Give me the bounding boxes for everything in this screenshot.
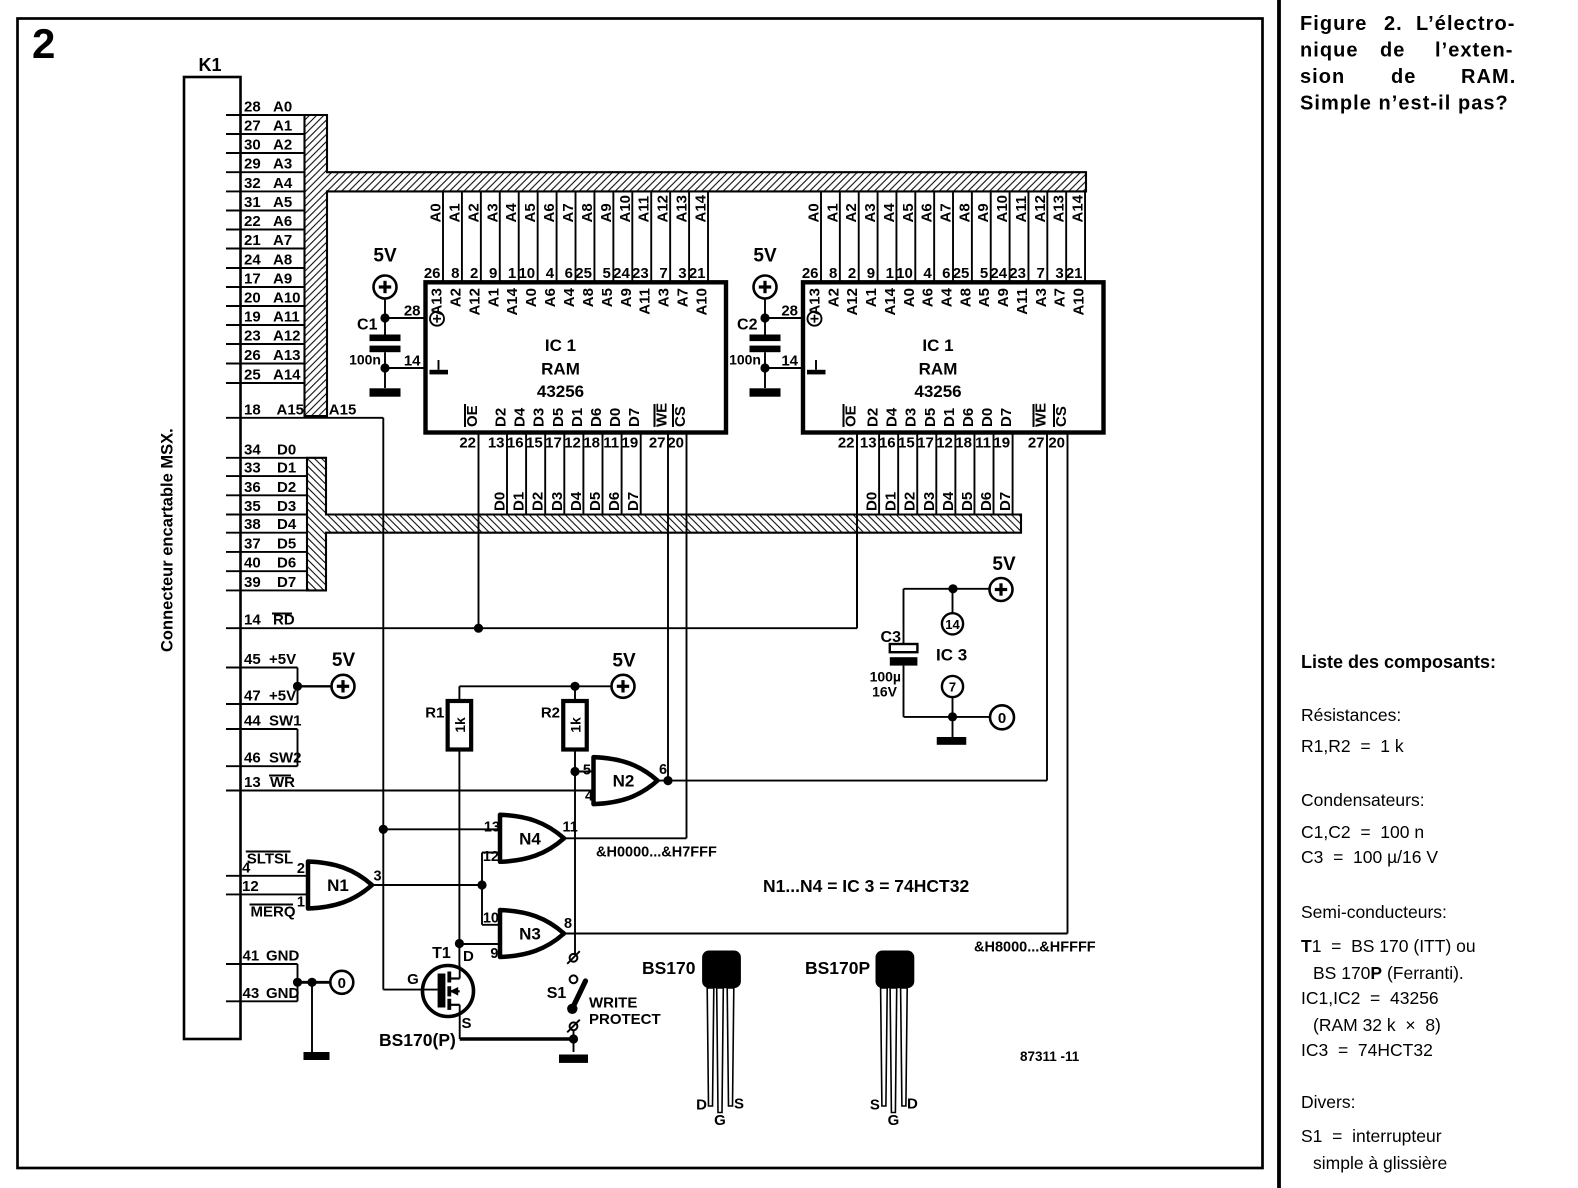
svg-text:1: 1 [886,265,894,282]
svg-text:A8: A8 [956,203,973,222]
svg-text:CS: CS [672,406,689,427]
or-gate N3 [483,910,572,962]
svg-text:D5: D5 [959,492,976,511]
svg-text:100n: 100n [729,352,761,368]
5V supply symbol at connector [332,675,355,698]
figure caption [1300,13,1516,115]
svg-text:C1,C2 = 100 n: C1,C2 = 100 n [1301,822,1424,842]
svg-text:22: 22 [244,213,261,230]
svg-text:Connecteur encartable MSX.: Connecteur encartable MSX. [159,428,177,652]
svg-text:A9: A9 [975,203,992,222]
svg-text:A3: A3 [862,203,879,222]
svg-text:A15: A15 [329,401,357,418]
svg-text:A1: A1 [824,203,841,222]
svg-text:GND: GND [266,985,300,1002]
svg-text:A10: A10 [994,195,1011,223]
svg-text:R2: R2 [541,705,560,722]
svg-text:A7: A7 [273,232,292,249]
svg-text:A14: A14 [882,287,899,315]
svg-text:20: 20 [1048,435,1065,452]
svg-text:18: 18 [955,435,972,452]
svg-text:A9: A9 [598,203,615,222]
svg-text:RAM: RAM [541,360,580,379]
svg-text:5V: 5V [373,246,397,267]
svg-text:SW2: SW2 [269,750,302,767]
package drawing BS170P [805,951,918,1130]
svg-text:19: 19 [622,435,639,452]
svg-text:A12: A12 [844,288,861,316]
svg-text:D7: D7 [998,408,1015,427]
wire 5V rail to R1/R2 [459,682,611,691]
svg-text:6: 6 [565,265,573,282]
svg-text:23: 23 [1009,265,1026,282]
resistor R2 (1k) [541,686,587,749]
svg-text:D0: D0 [979,408,996,427]
svg-text:15: 15 [526,435,543,452]
svg-text:D0: D0 [607,408,624,427]
svg-text:D6: D6 [606,492,623,511]
svg-text:A4: A4 [881,203,898,223]
svg-text:12: 12 [242,878,259,895]
svg-text:12: 12 [483,849,499,865]
wire N2 output to WE pins [658,776,1048,785]
svg-text:BS 170P (Ferranti).: BS 170P (Ferranti). [1313,963,1464,983]
svg-text:A1: A1 [485,288,502,307]
svg-text:87311 -11: 87311 -11 [1020,1049,1080,1064]
svg-text:A11: A11 [273,309,300,326]
svg-text:A0: A0 [428,203,445,222]
5V supply above C2 [754,276,777,299]
svg-text:28: 28 [404,303,421,320]
svg-text:23: 23 [632,265,649,282]
svg-text:IC 1: IC 1 [545,336,576,355]
svg-text:D4: D4 [884,407,901,427]
svg-text:A13: A13 [1051,195,1068,223]
svg-text:17: 17 [917,435,934,452]
transistor T1 (BS170) [383,945,474,1039]
svg-text:A8: A8 [273,252,292,269]
svg-text:11: 11 [563,820,578,836]
svg-text:A3: A3 [484,203,501,222]
svg-text:6: 6 [942,265,950,282]
svg-text:100n: 100n [349,352,381,368]
svg-text:31: 31 [244,194,261,211]
ground terminal 0 at connector [330,971,353,994]
svg-text:1k: 1k [452,717,468,733]
svg-text:39: 39 [244,574,261,591]
svg-text:R1,R2 = 1 k: R1,R2 = 1 k [1301,736,1404,756]
svg-text:A12: A12 [655,195,672,223]
svg-text:A1: A1 [273,118,292,135]
svg-text:WE: WE [654,403,671,427]
svg-text:5V: 5V [332,650,356,671]
connector pin 13 WR + wire to N2 [226,774,595,791]
svg-text:A12: A12 [273,328,301,345]
svg-text:L’électro-: L’électro- [1416,13,1515,35]
connector pins 44/46 SW1 SW2 [226,713,302,767]
package drawing BS170 [642,951,744,1130]
svg-text:Simple n’est-il pas?: Simple n’est-il pas? [1300,93,1509,115]
ground terminal 0 at IC3 [990,705,1014,729]
svg-text:D3: D3 [903,408,920,427]
svg-text:0: 0 [998,710,1006,727]
svg-text:Semi-conducteurs:: Semi-conducteurs: [1301,902,1447,922]
svg-text:A13: A13 [674,195,691,223]
svg-text:20: 20 [667,435,684,452]
svg-text:13: 13 [860,435,877,452]
svg-text:8: 8 [829,265,837,282]
svg-text:7: 7 [949,680,956,695]
svg-text:40: 40 [244,555,261,572]
svg-text:A8: A8 [579,203,596,222]
svg-text:A10: A10 [273,290,301,307]
svg-text:2: 2 [297,861,305,877]
svg-text:A0: A0 [806,203,823,222]
svg-text:C2: C2 [737,317,758,334]
svg-text:14: 14 [244,612,261,629]
svg-text:10: 10 [483,911,499,927]
svg-text:47: 47 [244,688,261,705]
ground symbol below IC3 pin 7 [937,737,967,745]
svg-text:3: 3 [374,869,382,885]
svg-text:D1: D1 [277,460,296,477]
svg-text:18: 18 [244,401,261,418]
svg-text:A3: A3 [1033,288,1050,307]
svg-text:OE: OE [843,405,860,427]
svg-text:A5: A5 [273,194,292,211]
svg-text:RAM: RAM [919,360,958,379]
svg-text:de: de [1391,66,1416,88]
svg-text:A6: A6 [920,288,937,307]
svg-text:OE: OE [464,405,481,427]
svg-text:37: 37 [244,535,261,552]
connector pins 4 SLTSL / 12 MERQ [226,851,310,921]
capacitor C3 (100u/16V electrolytic) [870,589,918,717]
svg-text:RAM.: RAM. [1461,66,1516,88]
svg-text:17: 17 [244,271,261,288]
svg-text:R1: R1 [425,705,444,722]
svg-text:D7: D7 [997,492,1014,511]
svg-text:5: 5 [980,265,988,282]
svg-text:G: G [407,971,419,988]
svg-text:25: 25 [575,265,592,282]
svg-text:A3: A3 [273,156,292,173]
svg-text:36: 36 [244,479,261,496]
svg-text:A6: A6 [542,288,559,307]
connector K1 data pins D0-D7 [226,441,307,591]
IC3 supply pins and C3 [904,584,991,737]
svg-text:7: 7 [659,265,667,282]
svg-text:44: 44 [244,713,261,730]
RAM IC1 (43256) [426,282,727,432]
svg-text:A5: A5 [599,288,616,307]
svg-text:20: 20 [244,290,261,307]
svg-text:D4: D4 [940,491,957,511]
svg-text:22: 22 [838,435,855,452]
svg-text:34: 34 [244,441,261,458]
wire N3 pin 9 from T1 drain node [455,939,501,948]
svg-text:D: D [463,948,474,965]
svg-text:IC1,IC2 = 43256: IC1,IC2 = 43256 [1301,988,1439,1008]
svg-text:13: 13 [484,820,500,836]
svg-text:1: 1 [297,895,305,911]
svg-text:S: S [462,1015,472,1032]
svg-text:D0: D0 [277,441,296,458]
svg-text:simple à glissière: simple à glissière [1313,1153,1447,1173]
schematic border frame [18,19,1263,1169]
svg-text:A4: A4 [561,287,578,307]
connector pin 18 A15 + wire to N4/T1 [226,401,388,989]
svg-text:5V: 5V [992,554,1016,575]
svg-text:MERQ: MERQ [251,904,296,921]
svg-text:1k: 1k [568,717,584,733]
wire R2 bottom to S1 [570,750,594,954]
svg-text:S: S [734,1096,744,1113]
svg-text:A2: A2 [273,137,292,154]
RAM IC2 (43256) [803,282,1104,432]
svg-text:PROTECT: PROTECT [589,1011,661,1028]
svg-text:25: 25 [244,367,261,384]
svg-text:D2: D2 [530,492,547,511]
svg-text:A1: A1 [446,203,463,222]
svg-text:A14: A14 [693,194,710,222]
IC2 control/data pin wires [838,403,1070,934]
svg-text:D5: D5 [277,535,296,552]
svg-text:D1: D1 [941,408,958,427]
svg-text:A4: A4 [273,175,293,192]
svg-text:GND: GND [266,948,300,965]
svg-text:BS170: BS170 [642,958,696,978]
svg-text:C3 = 100 µ/16 V: C3 = 100 µ/16 V [1301,847,1438,867]
svg-text:A8: A8 [580,288,597,307]
svg-text:&H0000...&H7FFF: &H0000...&H7FFF [596,845,717,861]
svg-text:29: 29 [244,156,261,173]
svg-text:41: 41 [243,948,260,965]
svg-text:A10: A10 [1071,288,1088,316]
svg-text:15: 15 [898,435,915,452]
svg-text:21: 21 [244,232,261,249]
wire T1 source to ground node [460,1034,578,1043]
svg-text:D1: D1 [883,492,900,511]
ground symbol below S1 [559,1055,588,1063]
svg-text:WR: WR [270,774,295,791]
svg-text:A2: A2 [843,203,860,222]
svg-text:21: 21 [1066,265,1083,282]
svg-text:D2: D2 [277,479,296,496]
svg-text:43256: 43256 [914,382,961,401]
svg-text:4: 4 [546,265,555,282]
svg-text:14: 14 [781,353,798,370]
connector pins 41/43 GND [226,948,330,1053]
svg-text:BS170(P): BS170(P) [379,1030,456,1050]
ground symbol below connector [304,1052,330,1060]
connector pins 45/47 +5V [226,651,332,705]
svg-text:A14: A14 [504,287,521,315]
svg-text:A14: A14 [273,367,301,384]
svg-text:N1: N1 [327,876,349,895]
svg-text:6: 6 [659,762,667,778]
svg-text:D7: D7 [626,408,643,427]
svg-text:Figure: Figure [1300,13,1367,35]
svg-text:23: 23 [244,328,261,345]
svg-text:A11: A11 [1014,288,1031,315]
svg-text:14: 14 [945,617,960,632]
svg-text:43: 43 [243,985,260,1002]
svg-text:45: 45 [244,651,261,668]
svg-text:A9: A9 [995,288,1012,307]
svg-text:16: 16 [879,435,896,452]
svg-text:5V: 5V [612,651,636,672]
5V supply near R2 [612,675,635,698]
svg-text:24: 24 [990,265,1007,282]
svg-text:Liste des composants:: Liste des composants: [1301,652,1496,672]
svg-text:16: 16 [507,435,524,452]
svg-text:A7: A7 [938,203,955,222]
svg-text:l’exten-: l’exten- [1435,40,1513,62]
svg-text:5V: 5V [753,246,777,267]
svg-text:(RAM 32 k × 8): (RAM 32 k × 8) [1313,1015,1441,1035]
svg-text:D0: D0 [864,492,881,511]
svg-text:D1: D1 [569,408,586,427]
svg-text:nique: nique [1300,40,1359,62]
svg-text:D2: D2 [865,408,882,427]
svg-text:A2: A2 [447,288,464,307]
svg-text:D4: D4 [277,516,297,533]
svg-text:D6: D6 [588,408,605,427]
svg-text:G: G [888,1112,900,1129]
svg-text:N2: N2 [613,772,635,791]
svg-text:SW1: SW1 [269,713,302,730]
svg-text:24: 24 [244,252,261,269]
svg-text:27: 27 [1028,435,1045,452]
svg-text:CS: CS [1053,406,1070,427]
svg-text:D6: D6 [960,408,977,427]
svg-text:SLTSL: SLTSL [247,851,293,868]
IC1 address pin wires [424,191,711,315]
svg-text:D2: D2 [493,408,510,427]
svg-text:2.: 2. [1384,13,1403,35]
svg-text:2: 2 [32,20,55,67]
svg-text:A7: A7 [1052,288,1069,307]
svg-text:4: 4 [585,789,593,805]
svg-text:38: 38 [244,516,261,533]
connector K1 address pins A0-A14 [226,99,305,384]
svg-text:D: D [696,1097,707,1114]
svg-text:T1 = BS 170 (ITT) ou: T1 = BS 170 (ITT) ou [1301,936,1476,956]
or-gate N1 [297,861,382,911]
svg-text:S1: S1 [547,985,567,1002]
column divider [1277,0,1281,1188]
svg-text:13: 13 [244,774,261,791]
svg-text:A3: A3 [656,288,673,307]
svg-text:D6: D6 [978,492,995,511]
svg-text:35: 35 [244,498,261,515]
svg-text:A6: A6 [541,203,558,222]
svg-text:17: 17 [545,435,562,452]
svg-text:19: 19 [244,309,261,326]
svg-text:+5V: +5V [269,651,296,668]
svg-text:A2: A2 [825,288,842,307]
svg-text:9: 9 [490,946,498,962]
svg-text:11: 11 [975,435,991,452]
svg-text:10: 10 [896,265,913,282]
wire N1 output node [372,853,501,925]
resistor R1 (1k) [425,686,471,749]
switch S1 (write protect) [547,951,661,1052]
svg-text:19: 19 [993,435,1010,452]
svg-text:WRITE: WRITE [589,995,637,1012]
svg-text:30: 30 [244,137,261,154]
svg-text:S: S [870,1097,880,1114]
svg-text:A4: A4 [939,287,956,307]
svg-text:BS170P: BS170P [805,958,871,978]
svg-text:16V: 16V [872,684,898,700]
svg-text:C3: C3 [881,629,902,646]
svg-text:26: 26 [244,347,261,364]
parts list [1301,652,1496,1173]
svg-text:IC3 = 74HCT32: IC3 = 74HCT32 [1301,1040,1433,1060]
svg-text:A0: A0 [901,288,918,307]
svg-text:T1: T1 [432,945,451,962]
svg-text:D3: D3 [921,492,938,511]
svg-text:27: 27 [244,118,261,135]
wire N3 output to IC2 CS [564,933,1068,935]
address bus (hatched) [305,115,1087,416]
ground symbol below C1 [370,388,401,396]
svg-text:A2: A2 [465,203,482,222]
svg-text:D6: D6 [277,555,296,572]
connector K1 [184,77,241,1039]
svg-text:A15: A15 [277,401,305,418]
svg-text:N4: N4 [519,829,541,848]
IC2 address pin wires [802,191,1088,315]
svg-text:D7: D7 [625,492,642,511]
svg-text:3: 3 [1055,265,1063,282]
svg-text:43256: 43256 [537,382,584,401]
IC1 control/data pin wires [459,403,689,838]
svg-text:8: 8 [564,916,572,932]
svg-text:1: 1 [508,265,516,282]
svg-text:25: 25 [953,265,970,282]
svg-text:A14: A14 [1070,194,1087,222]
svg-text:A9: A9 [618,288,635,307]
5V supply at IC3 [990,578,1013,601]
svg-text:D7: D7 [277,574,296,591]
svg-text:11: 11 [603,435,619,452]
svg-text:18: 18 [583,435,600,452]
5V supply above C1 [374,276,397,299]
svg-text:WE: WE [1033,403,1050,427]
svg-text:A12: A12 [1032,195,1049,223]
svg-text:A11: A11 [637,288,654,315]
svg-text:A5: A5 [522,203,539,222]
svg-text:8: 8 [451,265,459,282]
svg-text:A13: A13 [273,347,301,364]
svg-text:A0: A0 [523,288,540,307]
svg-text:N3: N3 [519,925,541,944]
svg-text:G: G [714,1112,726,1129]
svg-text:9: 9 [489,265,497,282]
svg-text:2: 2 [848,265,856,282]
svg-text:K1: K1 [198,55,221,75]
IC2 power pins 28/14 with capacitor C2 [765,303,826,375]
svg-text:5: 5 [583,763,591,779]
svg-text:3: 3 [678,265,686,282]
svg-text:A10: A10 [617,195,634,223]
svg-text:+5V: +5V [269,688,296,705]
svg-text:A4: A4 [503,203,520,223]
svg-text:sion: sion [1300,66,1345,88]
